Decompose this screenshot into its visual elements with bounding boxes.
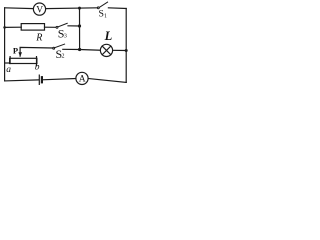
svg-text:1: 1 — [104, 14, 107, 20]
svg-text:R: R — [35, 32, 42, 43]
svg-text:2: 2 — [62, 54, 65, 60]
svg-text:A: A — [79, 75, 86, 85]
svg-text:a: a — [6, 65, 11, 75]
svg-text:3: 3 — [64, 33, 67, 39]
svg-text:V: V — [36, 5, 43, 15]
svg-text:b: b — [35, 63, 40, 73]
svg-text:P: P — [13, 46, 18, 56]
svg-text:L: L — [104, 29, 113, 43]
